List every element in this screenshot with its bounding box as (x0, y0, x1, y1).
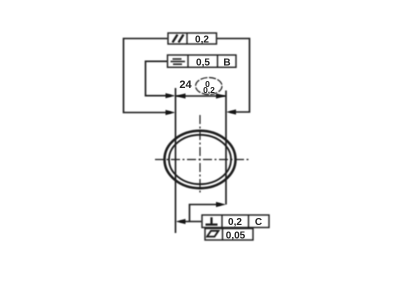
svg-text:B: B (223, 57, 230, 68)
svg-text:0,2: 0,2 (203, 85, 215, 95)
svg-text:C: C (255, 217, 262, 228)
svg-text:24: 24 (179, 79, 192, 91)
svg-text:0,5: 0,5 (196, 57, 210, 68)
svg-text:0,2: 0,2 (195, 35, 209, 46)
svg-text:0,2: 0,2 (228, 217, 242, 228)
svg-text:0,05: 0,05 (226, 231, 246, 242)
